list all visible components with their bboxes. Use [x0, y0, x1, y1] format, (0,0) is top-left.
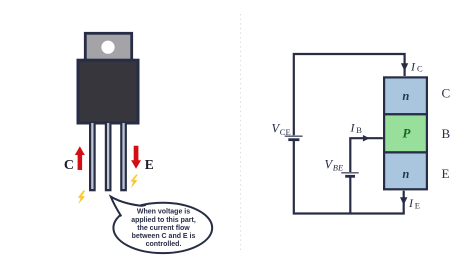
svg-text:When voltage is: When voltage is	[137, 209, 190, 216]
n region (emitter)	[384, 152, 427, 189]
svg-text:CE: CE	[280, 127, 291, 137]
battery V_BE long plate	[341, 172, 358, 174]
transistor package body	[78, 60, 138, 123]
leg 3 (E)	[120, 123, 127, 191]
red up arrow at C	[75, 146, 85, 170]
dotted divider	[240, 14, 242, 252]
lightning bolt left	[78, 190, 86, 204]
svg-text:BE: BE	[333, 163, 344, 173]
svg-text:I: I	[350, 120, 356, 134]
svg-text:I: I	[408, 196, 414, 210]
svg-text:E: E	[415, 201, 420, 211]
leg 1 (C)	[89, 123, 96, 191]
wire: bottom loop	[294, 141, 404, 214]
arrowhead I_E	[400, 197, 407, 205]
transistor package tab	[85, 33, 131, 61]
battery V_CE short thick plate	[288, 138, 299, 141]
svg-text:C: C	[64, 158, 74, 173]
wire: collector loop (left V_CE branch top)	[294, 54, 405, 135]
speech bubble tail	[111, 197, 146, 222]
svg-text:C: C	[417, 63, 423, 73]
svg-text:the current flow: the current flow	[137, 225, 190, 232]
svg-text:n: n	[402, 89, 409, 103]
svg-text:controlled.: controlled.	[146, 241, 182, 248]
lightning bolt right	[130, 174, 138, 188]
arrowhead I_C	[401, 63, 408, 71]
wire: base branch	[349, 178, 351, 214]
svg-text:between C and E is: between C and E is	[132, 233, 196, 240]
svg-text:B: B	[356, 125, 362, 135]
red down arrow at E	[131, 146, 141, 169]
svg-text:I: I	[410, 59, 416, 73]
battery V_BE short thick plate	[345, 175, 355, 178]
svg-text:C: C	[442, 86, 451, 101]
leg 2 (B)	[105, 123, 112, 191]
svg-text:E: E	[442, 166, 450, 181]
svg-text:E: E	[145, 157, 154, 172]
P region (base)	[384, 114, 427, 152]
n region (collector)	[384, 77, 427, 114]
svg-text:B: B	[442, 126, 451, 141]
svg-text:n: n	[402, 167, 409, 181]
wire: base horizontal with corner	[350, 138, 383, 172]
svg-text:P: P	[403, 126, 412, 141]
svg-text:applied to this part,: applied to this part,	[131, 217, 196, 224]
battery V_CE long plate	[285, 135, 303, 137]
arrowhead I_B	[363, 135, 370, 142]
speech bubble	[111, 197, 212, 254]
mounting hole	[101, 41, 114, 54]
